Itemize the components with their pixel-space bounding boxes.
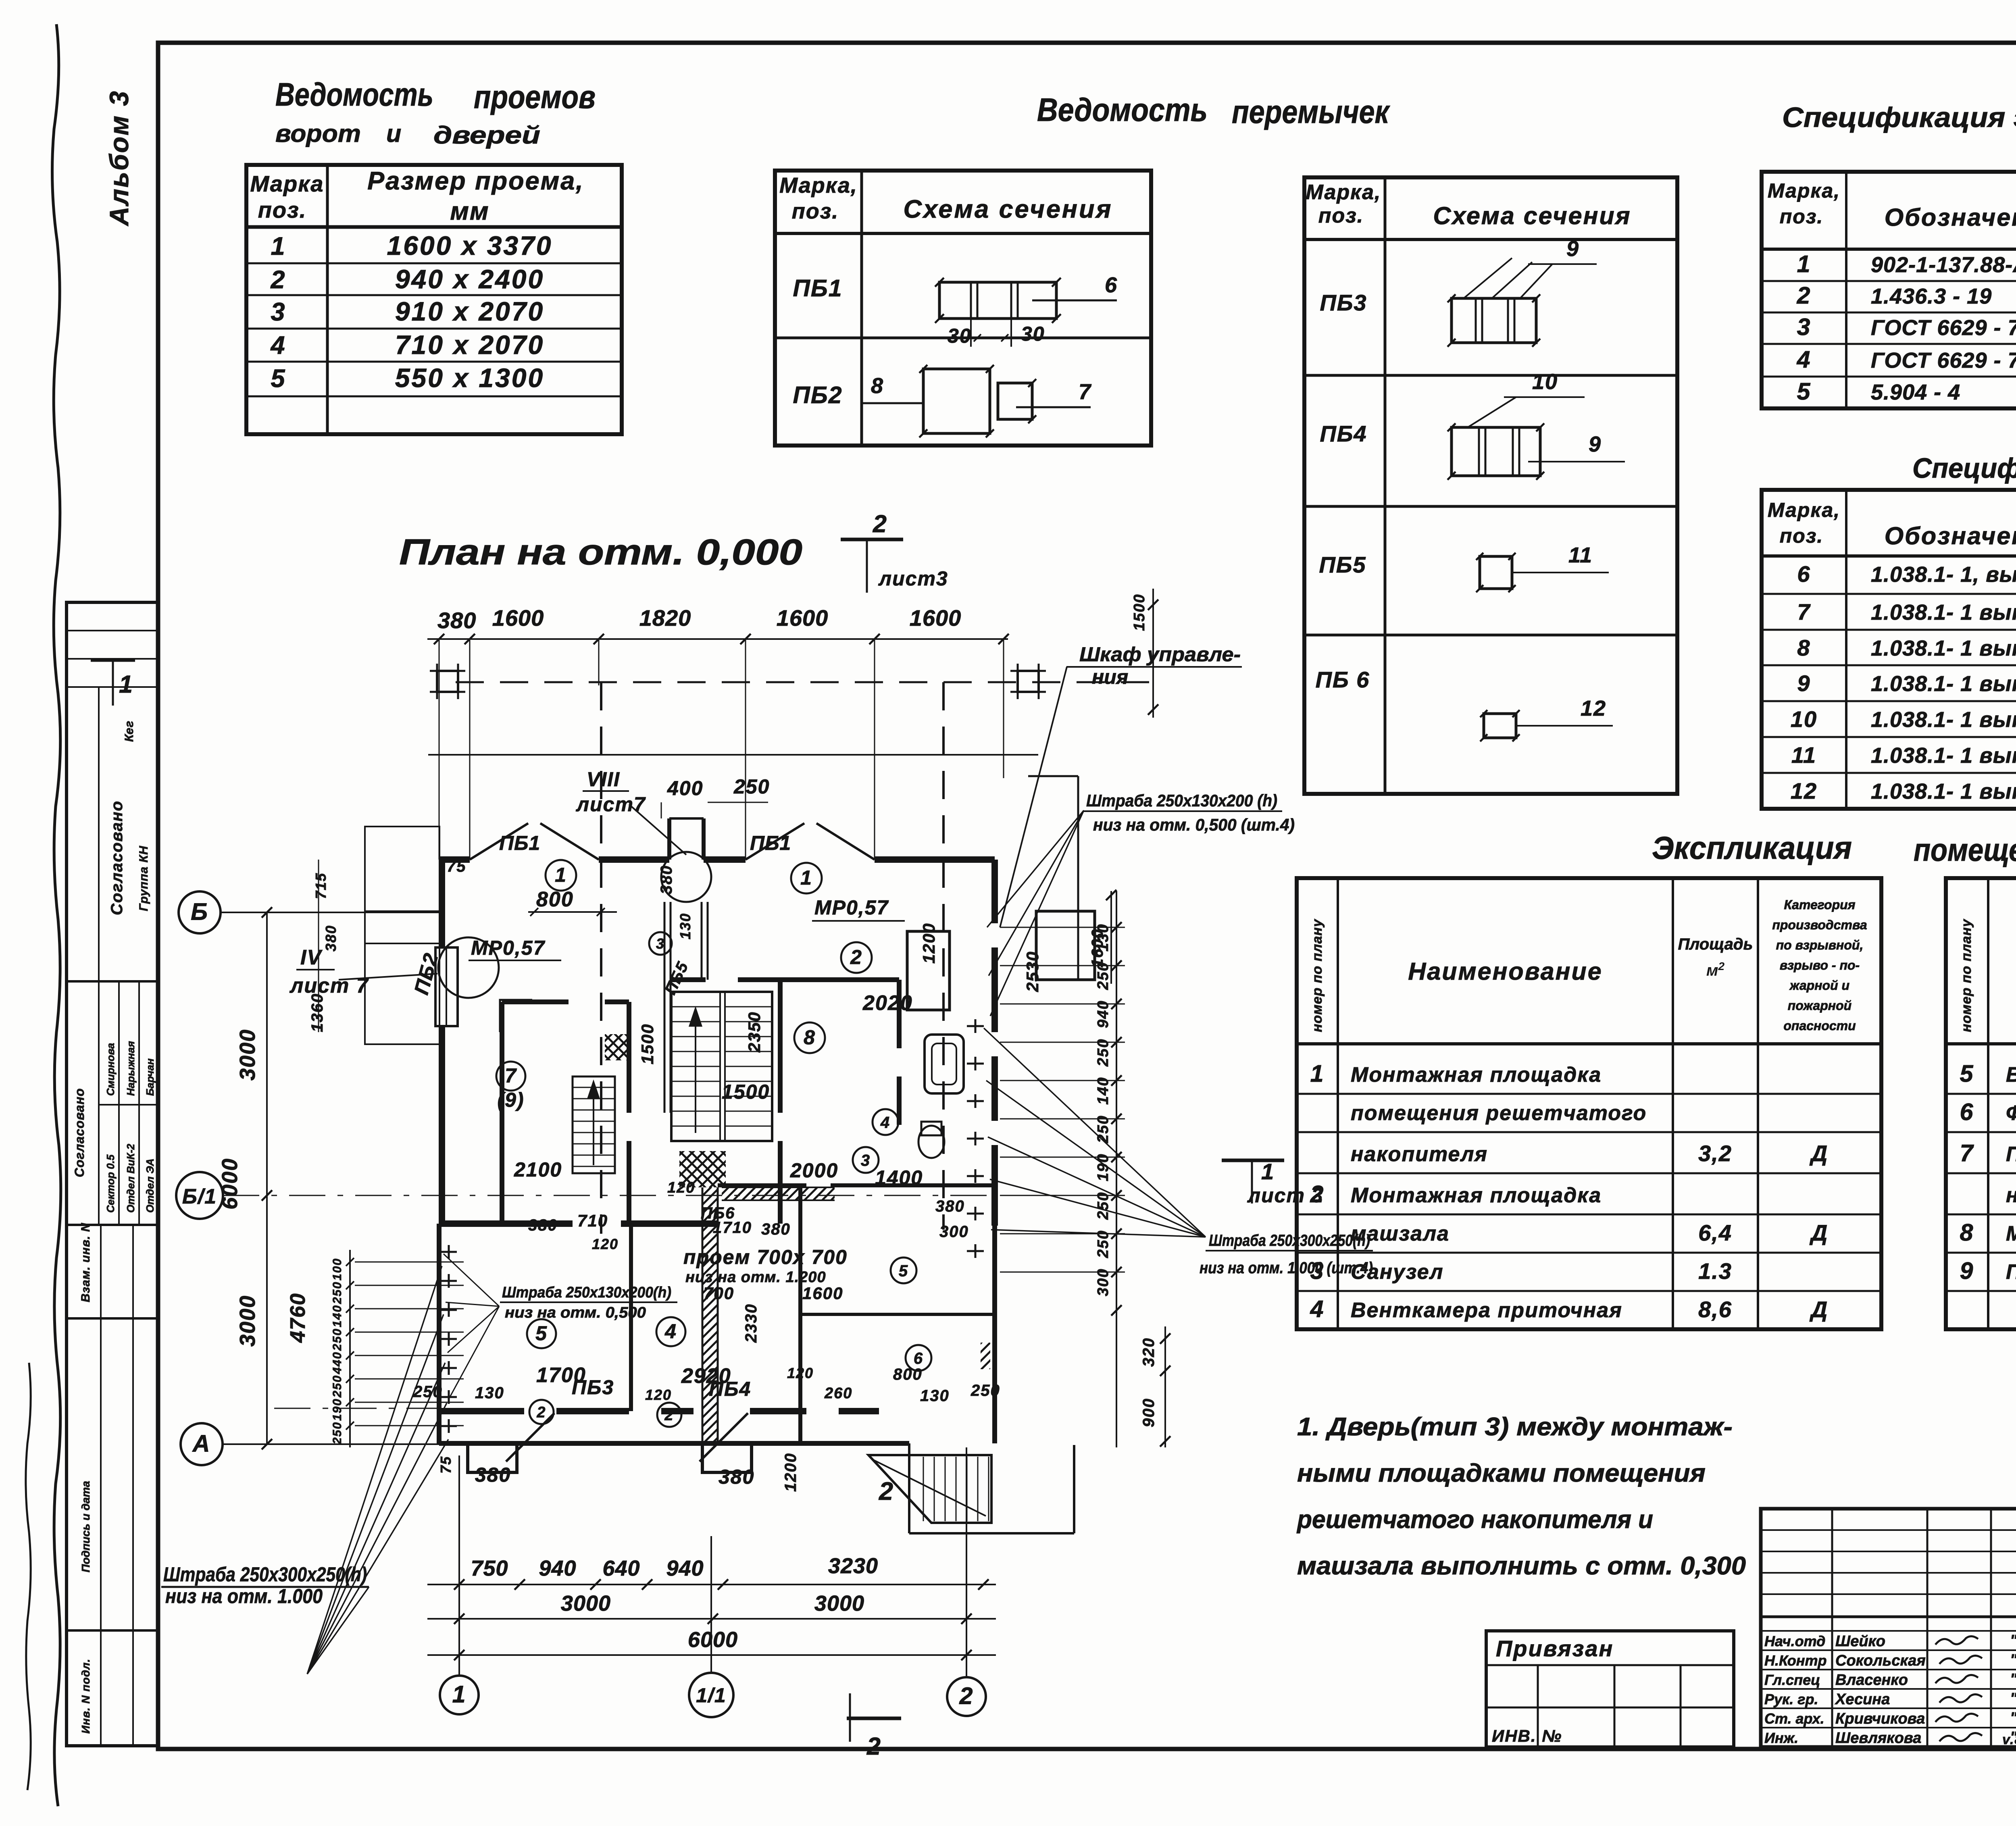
svg-text:120: 120 — [645, 1387, 672, 1403]
svg-text:3: 3 — [656, 935, 665, 952]
svg-text:Монтажная площадка: Монтажная площадка — [1351, 1184, 1602, 1207]
svg-text:3000: 3000 — [561, 1591, 611, 1616]
svg-text:Д: Д — [1810, 1220, 1828, 1245]
svg-text:Помещение решетчатого: Помещение решетчатого — [2006, 1143, 2016, 1166]
svg-text:Наименование: Наименование — [1408, 958, 1602, 985]
svg-text:6000: 6000 — [218, 1158, 242, 1210]
svg-text:Марка,: Марка, — [1306, 181, 1381, 204]
svg-text:Кривчикова: Кривчикова — [1835, 1710, 1925, 1727]
svg-text:6: 6 — [1960, 1099, 1974, 1125]
svg-text:Спецификация элементов заполне: Спецификация элементов заполнения проемо… — [1782, 102, 2016, 133]
svg-text:7: 7 — [1960, 1140, 1974, 1166]
svg-text:120: 120 — [592, 1236, 619, 1252]
svg-text:низ на отм. 1.000: низ на отм. 1.000 — [165, 1585, 323, 1607]
svg-text:1200: 1200 — [919, 923, 938, 964]
svg-text:380: 380 — [658, 865, 675, 894]
svg-text:Д: Д — [1810, 1141, 1828, 1166]
svg-text:Монтажная площадка: Монтажная площадка — [1351, 1063, 1602, 1087]
svg-text:10: 10 — [1532, 370, 1558, 394]
svg-text:А: А — [192, 1430, 211, 1457]
svg-text:": " — [2010, 1671, 2016, 1688]
svg-text:4: 4 — [880, 1114, 890, 1131]
svg-text:380: 380 — [528, 1216, 558, 1234]
svg-text:380: 380 — [761, 1220, 791, 1238]
svg-text:250: 250 — [1095, 1039, 1112, 1067]
svg-text:поз.: поз. — [258, 197, 307, 223]
svg-text:75: 75 — [437, 1456, 454, 1474]
svg-text:Рук. гр.: Рук. гр. — [1764, 1691, 1818, 1707]
svg-text:1200: 1200 — [782, 1453, 800, 1492]
svg-text:накопителя: накопителя — [2006, 1184, 2016, 1207]
svg-text:Инв. N подл.: Инв. N подл. — [79, 1659, 92, 1734]
svg-text:190: 190 — [331, 1398, 344, 1421]
svg-text:2: 2 — [866, 1732, 881, 1760]
svg-text:1. Дверь(тип 3) между монта: 1. Дверь(тип 3) между монтаж- — [1297, 1413, 1733, 1441]
svg-text:поз.: поз. — [1318, 204, 1364, 227]
svg-text:машзала выполнить с отм. 0: машзала выполнить с отм. 0,300 — [1297, 1552, 1746, 1580]
svg-text:250: 250 — [331, 1422, 344, 1445]
svg-text:Шкаф управле-: Шкаф управле- — [1079, 643, 1241, 666]
svg-text:250: 250 — [331, 1328, 344, 1351]
svg-text:Схема сечения: Схема сечения — [903, 195, 1112, 223]
svg-text:3000: 3000 — [235, 1295, 260, 1347]
svg-text:1.038.1- 1 вып.1: 1.038.1- 1 вып.1 — [1871, 600, 2016, 625]
svg-text:7: 7 — [1797, 599, 1811, 625]
svg-text:1360: 1360 — [308, 993, 326, 1032]
svg-text:250: 250 — [971, 1382, 1000, 1399]
svg-text:поз.: поз. — [1780, 205, 1824, 228]
svg-text:1: 1 — [555, 864, 567, 886]
svg-text:Марка,: Марка, — [1768, 499, 1840, 521]
svg-text:Власенко: Власенко — [1835, 1672, 1908, 1689]
svg-text:ПБ1: ПБ1 — [793, 275, 842, 302]
svg-text:низ на отм. 1.200: низ на отм. 1.200 — [685, 1269, 826, 1286]
svg-text:1: 1 — [119, 670, 133, 698]
svg-text:8,6: 8,6 — [1698, 1297, 1732, 1322]
svg-text:Штраба 250х300х250(h): Штраба 250х300х250(h) — [1209, 1232, 1370, 1249]
svg-text:250: 250 — [1095, 1192, 1112, 1220]
svg-text:Штраба 250х130х200(h): Штраба 250х130х200(h) — [502, 1284, 671, 1301]
svg-text:4: 4 — [1797, 346, 1811, 373]
svg-text:2: 2 — [270, 266, 285, 294]
svg-text:940 х 2400: 940 х 2400 — [395, 264, 544, 294]
svg-text:взрыво - по-: взрыво - по- — [1780, 958, 1860, 972]
svg-text:1.038.1- 1 вып.1: 1.038.1- 1 вып.1 — [1871, 779, 2016, 804]
svg-text:7: 7 — [505, 1064, 517, 1087]
svg-text:Штраба 250х300х250(h): Штраба 250х300х250(h) — [163, 1563, 367, 1586]
svg-text:ИНВ. №: ИНВ. № — [1492, 1726, 1562, 1745]
svg-text:940: 940 — [539, 1556, 576, 1580]
svg-text:1600: 1600 — [492, 605, 544, 631]
svg-text:1820: 1820 — [639, 605, 691, 631]
svg-text:940: 940 — [666, 1556, 704, 1580]
svg-text:ПБ4: ПБ4 — [1320, 421, 1367, 446]
svg-text:пожарной: пожарной — [1788, 998, 1851, 1013]
svg-text:6: 6 — [1105, 273, 1118, 297]
svg-text:2: 2 — [879, 1477, 894, 1505]
svg-text:Штраба 250х130х200 (h): Штраба 250х130х200 (h) — [1086, 791, 1277, 810]
svg-text:МР0,57: МР0,57 — [471, 937, 546, 959]
svg-text:Инж.: Инж. — [1764, 1730, 1798, 1746]
svg-text:7: 7 — [1079, 380, 1092, 404]
svg-text:640: 640 — [602, 1556, 640, 1580]
svg-text:250: 250 — [413, 1383, 443, 1401]
svg-text:1400: 1400 — [875, 1166, 923, 1189]
svg-text:Сектор 0.5: Сектор 0.5 — [104, 1154, 117, 1213]
svg-text:ПБ5: ПБ5 — [1319, 552, 1366, 577]
svg-text:ния: ния — [1092, 666, 1128, 688]
svg-text:5: 5 — [1960, 1060, 1974, 1087]
svg-text:Кег: Кег — [123, 720, 136, 742]
svg-text:v.88: v.88 — [2002, 1732, 2016, 1747]
svg-text:8: 8 — [804, 1026, 816, 1049]
svg-text:": " — [2010, 1632, 2016, 1649]
svg-text:130: 130 — [920, 1387, 950, 1405]
svg-text:2000: 2000 — [790, 1159, 838, 1182]
svg-text:лист3: лист3 — [878, 567, 948, 590]
svg-text:Согласовано: Согласовано — [108, 800, 126, 915]
svg-text:Марка,: Марка, — [1768, 179, 1840, 202]
svg-text:300: 300 — [1095, 1268, 1112, 1296]
svg-text:Отдел ВиК-2: Отдел ВиК-2 — [125, 1143, 137, 1213]
svg-text:8: 8 — [871, 374, 884, 398]
svg-text:902-1-137.88-АР.НЧ: 902-1-137.88-АР.НЧ — [1871, 253, 2016, 277]
svg-text:2: 2 — [1797, 282, 1811, 309]
svg-text:250: 250 — [733, 775, 770, 798]
svg-text:Привязан: Привязан — [1496, 1636, 1614, 1661]
svg-text:номер по плану: номер по плану — [1959, 918, 1974, 1032]
svg-text:5.904 - 4: 5.904 - 4 — [1871, 380, 1960, 404]
svg-text:715: 715 — [312, 872, 329, 899]
svg-text:3: 3 — [861, 1151, 871, 1169]
svg-text:Венткамера приточная: Венткамера приточная — [1351, 1299, 1622, 1322]
svg-text:2020: 2020 — [862, 991, 913, 1015]
svg-text:поз.: поз. — [792, 199, 839, 223]
svg-text:8: 8 — [1797, 635, 1810, 660]
svg-text:30: 30 — [1021, 323, 1045, 345]
svg-text:ПБ2: ПБ2 — [793, 382, 842, 408]
svg-text:лист 3: лист 3 — [1247, 1184, 1324, 1207]
svg-text:Обозначение: Обозначение — [1885, 204, 2016, 231]
svg-text:м2: м2 — [1706, 960, 1725, 979]
svg-text:11: 11 — [1791, 742, 1816, 768]
svg-text:Шейко: Шейко — [1835, 1633, 1885, 1650]
svg-text:9: 9 — [1797, 670, 1810, 696]
svg-text:8: 8 — [1960, 1219, 1974, 1246]
svg-text:250: 250 — [331, 1281, 344, 1304]
svg-text:9: 9 — [1960, 1258, 1974, 1284]
svg-text:3: 3 — [271, 298, 285, 326]
svg-text:11: 11 — [1568, 543, 1593, 567]
svg-text:Б/1: Б/1 — [182, 1185, 217, 1208]
svg-text:700: 700 — [704, 1284, 734, 1303]
svg-text:ПБ3: ПБ3 — [1320, 290, 1367, 315]
svg-text:140: 140 — [1095, 1077, 1112, 1105]
svg-text:250: 250 — [331, 1375, 344, 1398]
svg-text:Категория: Категория — [1784, 897, 1855, 912]
svg-text:800: 800 — [536, 888, 574, 911]
svg-text:План на отм. 0,000: План на отм. 0,000 — [399, 532, 802, 573]
svg-text:9: 9 — [1566, 237, 1579, 261]
svg-text:Отдел ЭА: Отдел ЭА — [144, 1158, 156, 1213]
svg-text:Ведомость: Ведомость — [1037, 92, 1208, 128]
svg-text:1500: 1500 — [722, 1081, 770, 1103]
svg-text:ПБ3: ПБ3 — [572, 1376, 614, 1399]
svg-text:1: 1 — [271, 232, 285, 260]
svg-text:1710: 1710 — [713, 1219, 752, 1237]
svg-text:6: 6 — [1797, 561, 1810, 587]
svg-text:4: 4 — [664, 1320, 677, 1343]
svg-text:и: и — [386, 120, 402, 147]
svg-text:IV: IV — [300, 946, 323, 969]
svg-text:1.436.3 - 19: 1.436.3 - 19 — [1871, 284, 1992, 308]
svg-text:75: 75 — [447, 858, 467, 875]
svg-text:Барчан: Барчан — [144, 1058, 156, 1096]
svg-text:1.038.1- 1 вып.1: 1.038.1- 1 вып.1 — [1871, 708, 2016, 732]
svg-text:130: 130 — [475, 1384, 504, 1402]
svg-text:100: 100 — [331, 1258, 344, 1280]
svg-text:4: 4 — [270, 331, 285, 360]
svg-text:проем 700х 700: проем 700х 700 — [683, 1246, 848, 1268]
svg-text:Группа КН: Группа КН — [137, 845, 150, 911]
svg-text:по взрывной,: по взрывной, — [1776, 938, 1864, 952]
svg-text:380: 380 — [475, 1464, 511, 1486]
svg-text:решетчатого накопителя и: решетчатого накопителя и — [1296, 1505, 1653, 1534]
svg-text:ПБ1: ПБ1 — [499, 832, 540, 854]
svg-text:МР0,57: МР0,57 — [814, 896, 889, 919]
svg-text:2: 2 — [850, 946, 862, 968]
svg-text:3230: 3230 — [828, 1554, 878, 1578]
svg-text:1.038.1- 1 вып.1: 1.038.1- 1 вып.1 — [1871, 743, 2016, 768]
svg-text:12: 12 — [1581, 696, 1606, 720]
svg-text:2: 2 — [959, 1683, 974, 1709]
svg-text:380: 380 — [323, 925, 339, 952]
svg-text:Гл.спец: Гл.спец — [1764, 1672, 1820, 1688]
svg-text:Взам. инв. N: Взам. инв. N — [79, 1222, 92, 1302]
svg-text:2: 2 — [664, 1407, 674, 1424]
svg-text:1.038.1- 1, вып.1: 1.038.1- 1, вып.1 — [1871, 562, 2016, 587]
svg-text:320: 320 — [1140, 1337, 1158, 1367]
svg-text:Смирнова: Смирнова — [104, 1043, 117, 1096]
svg-text:2530: 2530 — [1023, 951, 1042, 992]
svg-text:260: 260 — [824, 1385, 852, 1402]
svg-text:1/1: 1/1 — [696, 1684, 727, 1707]
svg-text:накопителя: накопителя — [1351, 1143, 1488, 1166]
svg-text:6: 6 — [914, 1349, 923, 1367]
svg-text:номер по плану: номер по плану — [1310, 918, 1325, 1032]
svg-text:1600: 1600 — [910, 605, 962, 631]
svg-text:4: 4 — [1310, 1296, 1325, 1322]
svg-text:низ на отм. 0,500 (шт.4): низ на отм. 0,500 (шт.4) — [1093, 815, 1295, 834]
svg-text:190: 190 — [1095, 1153, 1112, 1181]
svg-text:лист7: лист7 — [576, 793, 646, 816]
svg-text:мм: мм — [450, 197, 489, 225]
svg-text:910 х 2070: 910 х 2070 — [395, 296, 544, 326]
svg-text:130: 130 — [677, 913, 694, 939]
svg-text:1: 1 — [1310, 1060, 1325, 1087]
svg-text:5: 5 — [271, 364, 285, 393]
svg-text:2: 2 — [536, 1404, 546, 1421]
svg-text:400: 400 — [667, 777, 703, 800]
svg-text:поз.: поз. — [1780, 525, 1824, 547]
svg-text:1.038.1- 1 вып.1: 1.038.1- 1 вып.1 — [1871, 636, 2016, 660]
svg-text:лист 7: лист 7 — [289, 974, 369, 997]
svg-text:4760: 4760 — [286, 1293, 310, 1343]
svg-text:помещений: помещений — [1914, 832, 2016, 868]
svg-text:ными площадками помещения: ными площадками помещения — [1297, 1459, 1706, 1487]
svg-text:6000: 6000 — [688, 1628, 738, 1652]
svg-text:проемов: проемов — [474, 79, 596, 115]
svg-text:(9): (9) — [497, 1089, 524, 1111]
svg-text:Нарыжная: Нарыжная — [125, 1041, 137, 1096]
svg-text:1600: 1600 — [802, 1284, 843, 1303]
svg-text:5: 5 — [535, 1322, 548, 1345]
svg-text:низ на отм. 0,500: низ на отм. 0,500 — [505, 1304, 646, 1321]
svg-text:250: 250 — [1095, 1115, 1112, 1143]
svg-text:440: 440 — [331, 1351, 344, 1374]
svg-text:300: 300 — [939, 1223, 969, 1241]
svg-text:2350: 2350 — [745, 1012, 764, 1053]
svg-text:Альбом 3: Альбом 3 — [104, 90, 134, 227]
svg-text:Б: Б — [191, 899, 208, 925]
svg-text:перемычек: перемычек — [1232, 94, 1390, 130]
svg-text:Ведомость: Ведомость — [275, 77, 433, 113]
svg-text:10: 10 — [1791, 706, 1817, 732]
svg-text:12: 12 — [1791, 778, 1817, 804]
svg-text:3000: 3000 — [235, 1029, 260, 1081]
svg-text:380: 380 — [719, 1466, 754, 1488]
svg-text:Марка,: Марка, — [779, 173, 858, 198]
svg-text:Приемный резервуар: Приемный резервуар — [2006, 1260, 2016, 1284]
svg-text:1500: 1500 — [638, 1024, 657, 1064]
svg-text:Спецификация: Спецификация — [1912, 452, 2016, 484]
svg-text:VIII: VIII — [587, 768, 620, 791]
svg-text:9: 9 — [1589, 432, 1602, 456]
svg-text:Хесина: Хесина — [1835, 1691, 1890, 1708]
svg-text:1: 1 — [1797, 251, 1811, 277]
svg-text:Размер проема,: Размер проема, — [367, 167, 584, 195]
svg-text:ПБ 6: ПБ 6 — [1316, 667, 1370, 692]
svg-text:940: 940 — [1095, 1000, 1112, 1028]
svg-text:550 х 1300: 550 х 1300 — [395, 363, 544, 393]
svg-text:1600 х 3370: 1600 х 3370 — [387, 231, 552, 260]
svg-text:2: 2 — [873, 510, 887, 537]
svg-text:6,4: 6,4 — [1698, 1220, 1732, 1245]
svg-text:1.038.1- 1 вып.1: 1.038.1- 1 вып.1 — [1871, 672, 2016, 696]
svg-text:Экспликация: Экспликация — [1652, 830, 1852, 866]
svg-text:3,2: 3,2 — [1698, 1141, 1732, 1166]
svg-text:Сокольская: Сокольская — [1835, 1652, 1926, 1669]
svg-text:Согласовано: Согласовано — [72, 1088, 87, 1177]
svg-text:5: 5 — [1797, 378, 1811, 405]
svg-text:1600: 1600 — [1089, 929, 1106, 968]
svg-text:1600: 1600 — [777, 605, 829, 631]
svg-text:800: 800 — [893, 1366, 923, 1383]
svg-text:Ст. арх.: Ст. арх. — [1764, 1710, 1824, 1727]
svg-text:900: 900 — [1140, 1398, 1158, 1427]
svg-text:Д: Д — [1810, 1297, 1828, 1322]
svg-text:2330: 2330 — [742, 1303, 760, 1343]
svg-text:1.3: 1.3 — [1698, 1258, 1732, 1284]
svg-text:Схема сечения: Схема сечения — [1433, 202, 1631, 229]
svg-text:30: 30 — [948, 325, 972, 347]
svg-text:Машзал: Машзал — [2006, 1222, 2016, 1245]
svg-text:1500: 1500 — [1131, 593, 1148, 631]
svg-text:380: 380 — [437, 608, 476, 633]
svg-text:1: 1 — [452, 1681, 467, 1708]
svg-text:помещения решетчатого: помещения решетчатого — [1351, 1101, 1647, 1125]
svg-text:5: 5 — [899, 1262, 908, 1280]
svg-text:Нач.отд: Нач.отд — [1764, 1633, 1825, 1649]
svg-text:3: 3 — [1797, 314, 1811, 340]
svg-text:ПБ4: ПБ4 — [709, 1378, 751, 1400]
svg-text:ПБ1: ПБ1 — [750, 832, 791, 854]
svg-text:120: 120 — [667, 1179, 695, 1196]
svg-text:Марка: Марка — [250, 171, 324, 196]
svg-text:120: 120 — [787, 1365, 814, 1381]
svg-text:Подпись и дата: Подпись и дата — [79, 1481, 92, 1572]
svg-text:": " — [2010, 1690, 2016, 1707]
svg-text:710 х 2070: 710 х 2070 — [395, 330, 544, 360]
svg-text:1: 1 — [1261, 1159, 1275, 1184]
svg-text:Венткамера вытяжная: Венткамера вытяжная — [2006, 1063, 2016, 1087]
svg-text:жарной и: жарной и — [1789, 978, 1849, 993]
svg-text:дверей: дверей — [433, 121, 540, 149]
svg-text:1: 1 — [800, 866, 812, 889]
svg-text:710: 710 — [577, 1211, 608, 1230]
svg-text:Шевлякова: Шевлякова — [1835, 1730, 1921, 1747]
svg-text:ГОСТ 6629 - 74*: ГОСТ 6629 - 74* — [1871, 316, 2016, 340]
svg-text:Обозначение: Обозначение — [1885, 522, 2016, 550]
svg-text:производства: производства — [1772, 918, 1867, 932]
svg-text:380: 380 — [935, 1197, 965, 1215]
svg-text:Форкамера: Форкамера — [2006, 1101, 2016, 1125]
svg-text:2100: 2100 — [514, 1158, 562, 1181]
svg-text:140: 140 — [331, 1305, 344, 1327]
svg-text:ворот: ворот — [275, 120, 361, 147]
svg-text:Н.Контр: Н.Контр — [1764, 1652, 1827, 1669]
svg-text:": " — [2010, 1709, 2016, 1726]
svg-text:3000: 3000 — [814, 1591, 864, 1616]
svg-text:Площадь: Площадь — [1678, 935, 1753, 953]
svg-text:250: 250 — [1095, 1230, 1112, 1258]
svg-text:опасности: опасности — [1783, 1018, 1856, 1033]
svg-text:": " — [2010, 1651, 2016, 1668]
svg-text:750: 750 — [471, 1556, 508, 1580]
svg-text:низ на отм. 1.000 (шт.4): низ на отм. 1.000 (шт.4) — [1200, 1259, 1373, 1277]
svg-text:ГОСТ 6629 - 74*: ГОСТ 6629 - 74* — [1871, 348, 2016, 373]
